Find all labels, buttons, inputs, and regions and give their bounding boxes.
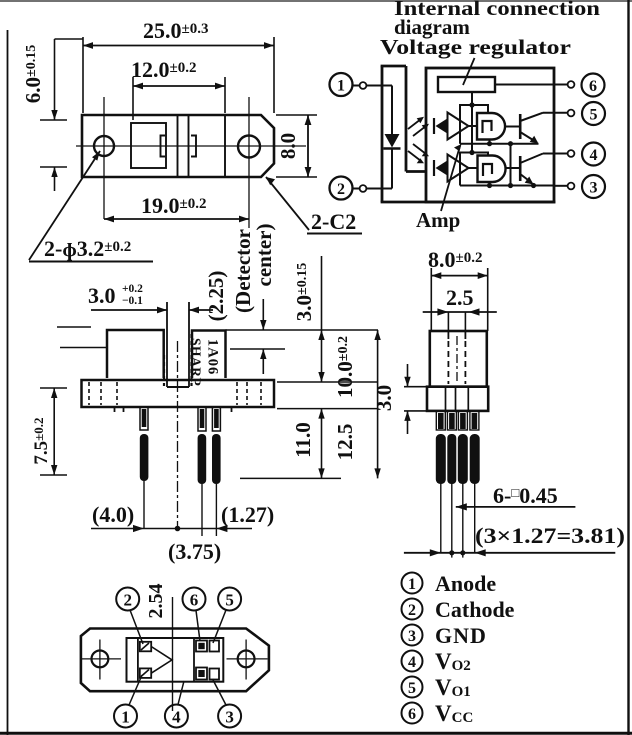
pin 5 circle: [582, 102, 605, 125]
dim 12.5 line: [377, 330, 379, 478]
photodiode PD1: [433, 118, 435, 134]
page left border: [7, 30, 9, 735]
svg-text:11.0: 11.0: [291, 422, 315, 458]
svg-text:center): center): [252, 224, 276, 287]
svg-text:5: 5: [225, 591, 234, 610]
svg-text:6: 6: [408, 706, 416, 723]
dim 7.5 tick top: [40, 387, 67, 389]
legend 5 VO1: [402, 677, 423, 698]
top view tab bracket left: [161, 136, 166, 157]
top view inner vertical line: [224, 115, 226, 177]
bottom num 2: [116, 588, 139, 611]
wire pin2 to cathode: [352, 188, 360, 190]
label 6-sq0.45 leader: [456, 506, 576, 508]
side flange inner lines: [445, 387, 447, 411]
svg-text:6: 6: [190, 591, 199, 610]
svg-text:+0.2: +0.2: [122, 283, 143, 295]
pad pin2: [140, 642, 151, 652]
front pin M1 stub: [198, 407, 206, 431]
dim 6.0 line lower: [54, 167, 56, 191]
label 2-phi3.2 leader: [29, 151, 100, 260]
front left tower: [107, 330, 164, 378]
svg-text:VO2: VO2: [435, 649, 471, 674]
legend 1 Anode: [402, 573, 423, 594]
tower top extension left: [57, 326, 91, 328]
LED D1 anode wire: [391, 86, 393, 135]
slot bottom: [167, 386, 189, 388]
bottom num 3: [218, 705, 241, 728]
svg-text:10.0±0.2: 10.0±0.2: [333, 336, 357, 398]
dim 2.5 line: [423, 311, 497, 313]
U1 bottom stub: [489, 140, 491, 144]
dim 3.0 flange ticks: [404, 386, 427, 388]
schmitt U1 glyph: [483, 121, 492, 133]
wire U2 to Q2 base: [505, 167, 519, 169]
top view slot edge left: [177, 115, 179, 177]
legend 6 VCC: [402, 703, 423, 724]
page bottom border: [0, 732, 632, 735]
svg-text:1: 1: [337, 78, 345, 95]
svg-text:3: 3: [408, 628, 416, 645]
dim 12.0 extension left: [132, 77, 134, 120]
legend 4 VO2: [402, 651, 423, 672]
dim 8.0 tick bottom: [276, 176, 317, 178]
dim 19.0 line: [104, 218, 249, 220]
pin 6 circle: [582, 74, 605, 97]
svg-text:8.0: 8.0: [276, 133, 300, 159]
legend 3 GND: [402, 625, 423, 646]
transistor Q1 base bar: [519, 114, 522, 139]
flange feet marks: [114, 407, 116, 412]
svg-text:12.5: 12.5: [333, 424, 357, 461]
top view tab bracket right: [191, 136, 196, 157]
pin 4 circle: [582, 143, 605, 166]
flange bottom extension right: [277, 408, 378, 410]
light arrows upper: [408, 119, 421, 129]
regulator VR box: [438, 77, 495, 92]
pin 2 circle: [330, 177, 353, 200]
svg-text:1A06: 1A06: [205, 339, 221, 375]
front pin M2 stub: [212, 407, 220, 431]
bottom num 4: [165, 705, 188, 728]
diagram bottom line: [381, 201, 556, 204]
svg-text:25.0±0.3: 25.0±0.3: [143, 18, 208, 43]
vertical to ground rail: [510, 144, 512, 186]
detector center line left: [60, 347, 107, 349]
dim 12.0 line: [133, 85, 225, 87]
dim 2.25 line: [262, 299, 264, 330]
top view mounting hole right: [238, 136, 260, 158]
side body: [430, 331, 487, 387]
pin 1 terminal dot: [360, 82, 367, 89]
svg-text:3.0: 3.0: [88, 283, 116, 308]
tower top extension line: [226, 329, 379, 331]
dim 8.0 ext left: [430, 268, 432, 331]
wire U1 to Q1 base: [505, 126, 520, 128]
bottom num 6: [183, 588, 206, 611]
front vertical centerline: [177, 341, 179, 529]
svg-text:2: 2: [408, 602, 416, 619]
pin 5 terminal dot: [568, 110, 575, 117]
dim 11.0 line: [321, 256, 323, 382]
wire A2 to U2: [469, 167, 478, 169]
side flange: [427, 387, 488, 411]
dim 6.0 line upper: [54, 39, 56, 120]
svg-text:4: 4: [172, 708, 181, 727]
svg-text:2.54: 2.54: [145, 584, 167, 619]
pad pin6: [196, 641, 207, 652]
bottom num 5: [218, 588, 241, 611]
flange top extension right: [277, 381, 378, 383]
svg-text:GND: GND: [435, 623, 487, 648]
page top border: [0, 0, 632, 2]
svg-text:VCC: VCC: [435, 701, 473, 726]
amp A2 triangle: [448, 155, 469, 182]
slot hidden dashes right: [190, 334, 192, 386]
svg-text:4: 4: [408, 654, 416, 671]
bottom centerline: [172, 597, 174, 711]
svg-text:4: 4: [590, 147, 598, 164]
dim 7.5 line: [53, 388, 55, 475]
top view horizontal centerline: [76, 145, 306, 147]
label 2-phi3.2 underline: [29, 261, 153, 263]
top view hole right centerline: [248, 97, 250, 228]
front pin L lead: [140, 434, 149, 481]
upper emitter rail: [460, 143, 539, 145]
ground rail: [460, 185, 554, 187]
svg-text:(2.25): (2.25): [204, 271, 228, 322]
lower channel top wire: [460, 153, 488, 186]
dim 12.0 extension right: [224, 77, 226, 113]
IC box: [426, 68, 554, 202]
dim 6.0 top tick: [55, 38, 84, 40]
bottom view outline: [81, 629, 269, 692]
dim 7.5 tick bottom: [40, 474, 67, 476]
label 2-C2 leader: [266, 177, 309, 230]
flange hidden lines right: [236, 382, 238, 405]
slot right edge: [188, 302, 190, 387]
svg-text:VO1: VO1: [435, 675, 471, 700]
svg-text:5: 5: [408, 680, 416, 697]
schmitt U2 box: [478, 156, 506, 183]
svg-text:6.0±0.15: 6.0±0.15: [21, 45, 45, 103]
schmitt U2 glyph: [483, 164, 492, 176]
svg-text:19.0±0.2: 19.0±0.2: [141, 193, 206, 218]
dim 25.0 extension right: [273, 37, 275, 113]
Amp label leader: [441, 146, 460, 211]
pin 1 circle: [330, 73, 353, 96]
transistor Q2 collector: [520, 154, 543, 164]
wire Q2 collector to pin4: [543, 153, 568, 155]
upper channel top wire: [460, 105, 488, 144]
svg-text:Voltage regulator: Voltage regulator: [380, 35, 571, 59]
top view inner package rect: [131, 123, 166, 168]
bottom partition left: [137, 638, 139, 682]
side bottom dim line: [404, 552, 615, 554]
LED D1 cathode wire: [391, 149, 393, 189]
svg-text:3: 3: [225, 708, 234, 727]
slot left edge: [166, 302, 168, 387]
transistor Q2 base bar: [519, 156, 522, 181]
pin end extension line: [240, 477, 341, 479]
photodiode PD2: [433, 160, 435, 176]
pin 6 terminal dot: [568, 81, 575, 88]
bottom partition right: [193, 638, 195, 682]
legend 2 Cathode: [402, 599, 423, 620]
dim 3.0 slot line: [91, 309, 167, 311]
svg-text:Cathode: Cathode: [435, 597, 515, 622]
svg-text:2: 2: [123, 591, 132, 610]
svg-text:5: 5: [590, 107, 598, 124]
wire A1 to U1: [469, 125, 478, 127]
bottom num 1: [114, 705, 137, 728]
front pin M2 lead: [212, 434, 221, 484]
svg-text:−0.1: −0.1: [122, 295, 143, 307]
side centerline: [456, 336, 458, 384]
wire Q1 collector to pin5: [543, 112, 568, 114]
svg-text:(3.75): (3.75): [168, 539, 221, 564]
side pin wires: [440, 484, 442, 553]
label 2-C2 underline: [307, 233, 362, 235]
slot hidden dashes left: [163, 355, 165, 386]
voltage regulator leader: [463, 58, 475, 85]
svg-text:3.0: 3.0: [372, 385, 396, 411]
dim 6.0 tick upper: [40, 119, 67, 121]
wire pin1 to anode: [352, 85, 360, 87]
dim 6.0 tick lower: [40, 166, 67, 168]
pad pin1: [140, 668, 151, 678]
detector center line right: [230, 348, 285, 350]
dim 25.0 line: [83, 45, 274, 47]
pin 4 terminal dot: [568, 150, 575, 157]
pin 3 terminal dot: [568, 183, 575, 190]
top view hole left centerline: [103, 97, 105, 219]
LED D1 triangle: [385, 134, 400, 148]
bottom inner body: [127, 638, 224, 682]
pad pin4: [210, 669, 220, 680]
top view slot edge right: [188, 115, 190, 177]
transistor Q1 collector: [520, 113, 543, 121]
wire rail to pin3: [554, 185, 568, 187]
LED compartment left wall: [381, 66, 384, 202]
dim 8.0 ext right: [487, 268, 489, 331]
svg-text:2-ɸ3.2±0.2: 2-ɸ3.2±0.2: [44, 236, 131, 261]
flange hidden lines left: [88, 382, 90, 405]
front right tower: [192, 331, 226, 379]
led emitter V shape: [151, 647, 172, 674]
front pin L stub: [140, 407, 148, 430]
pad pin5: [210, 641, 220, 652]
svg-text:3: 3: [590, 180, 598, 197]
svg-text:6: 6: [589, 78, 597, 95]
wire VR to pin6: [495, 84, 568, 86]
side pin leads: [436, 434, 446, 484]
side pin stubs: [436, 411, 445, 430]
top view mounting hole left: [94, 136, 114, 156]
dim 3.0 flange line: [407, 364, 409, 387]
bottom hole left: [92, 651, 109, 668]
dim 25.0 extension left: [82, 37, 84, 113]
svg-text:2.5: 2.5: [446, 285, 474, 310]
top view body outline: [82, 115, 274, 177]
side window dashed left: [447, 331, 449, 339]
pin 3 circle: [582, 175, 605, 198]
svg-text:1: 1: [121, 708, 130, 727]
svg-text:(1.27): (1.27): [221, 502, 274, 527]
schmitt U1 box: [477, 113, 505, 140]
LED D1 cathode bar: [384, 147, 401, 149]
pad pin3: [196, 668, 207, 680]
svg-text:7.5±0.2: 7.5±0.2: [31, 417, 52, 464]
wire VR down feed: [471, 92, 473, 153]
U2 bottom stub: [489, 182, 491, 186]
bottom hole right: [238, 651, 255, 668]
dim 8.0 tick top: [276, 114, 317, 116]
svg-text:2: 2: [337, 181, 345, 198]
bottom dim line: [91, 528, 252, 530]
light arrows lower: [408, 151, 421, 161]
LED compartment right wall: [405, 66, 408, 172]
svg-text:8.0±0.2: 8.0±0.2: [428, 247, 482, 272]
transistor Q1 emitter: [520, 132, 537, 143]
svg-text:2-C2: 2-C2: [311, 209, 356, 234]
svg-text:(4.0): (4.0): [92, 502, 134, 527]
pin 2 terminal dot: [360, 185, 367, 192]
svg-text:Amp: Amp: [416, 208, 460, 232]
svg-text:12.0±0.2: 12.0±0.2: [131, 57, 196, 82]
dim 8.0 line: [307, 115, 309, 177]
svg-text:6-□0.45: 6-□0.45: [493, 483, 558, 508]
side window dashed right: [464, 331, 466, 339]
front pin M1 lead: [198, 434, 207, 484]
amp A1 triangle: [448, 113, 469, 140]
svg-text:(3×1.27=3.81): (3×1.27=3.81): [475, 523, 625, 548]
svg-text:1: 1: [408, 576, 416, 593]
transistor Q2 emitter: [520, 174, 532, 183]
svg-text:Anode: Anode: [435, 571, 496, 596]
dim 8.0 line: [431, 275, 487, 277]
page right border: [627, 0, 629, 735]
front flange: [82, 380, 275, 407]
slot ledge: [406, 170, 426, 173]
svg-text:3.0±0.15: 3.0±0.15: [292, 263, 316, 321]
LED compartment top: [381, 65, 406, 68]
